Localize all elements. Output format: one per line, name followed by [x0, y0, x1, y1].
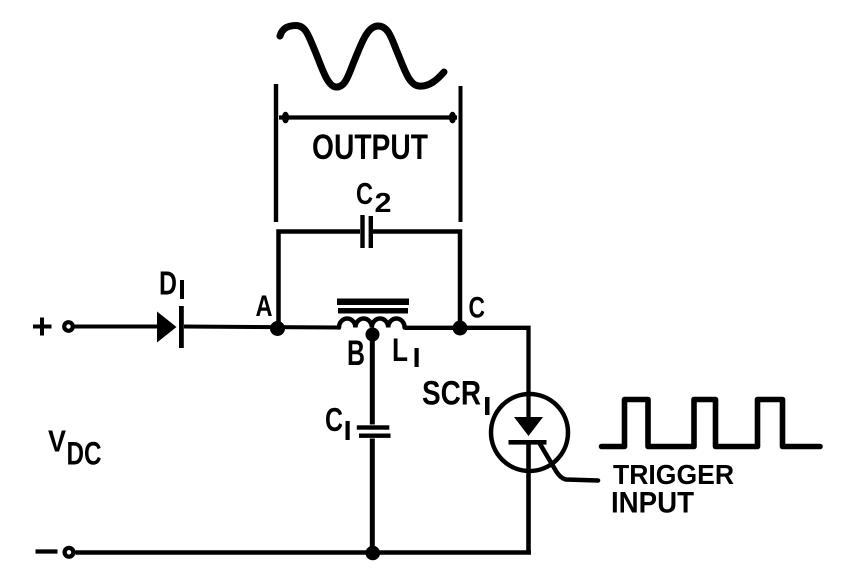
svg-text:C: C	[356, 176, 373, 211]
dimension line left	[274, 84, 278, 222]
bottom rail wire	[76, 550, 532, 555]
svg-text:OUTPUT: OUTPUT	[312, 128, 428, 167]
svg-text:V: V	[48, 424, 66, 459]
wire node C to corner	[405, 328, 529, 396]
wire node B to C1	[370, 334, 375, 425]
svg-text:2: 2	[375, 187, 392, 218]
wire diode to node A	[184, 327, 340, 328]
svg-text:D: D	[159, 265, 177, 302]
- symbol	[36, 549, 58, 553]
node B	[366, 328, 380, 342]
SCR1 cathode bar	[509, 440, 547, 445]
SCR1 cathode wire to bottom	[526, 444, 531, 553]
svg-text:C: C	[469, 292, 486, 325]
inductor L1 core bars	[337, 299, 409, 314]
wire + terminal to diode	[74, 325, 157, 329]
label OUTPUT	[312, 128, 428, 167]
+ input terminal	[64, 322, 73, 331]
gate lead	[540, 444, 598, 481]
label A	[256, 290, 273, 323]
label B	[347, 334, 365, 373]
- terminal	[65, 548, 74, 557]
label SCR1	[422, 375, 490, 416]
label C1	[325, 401, 350, 440]
inductor L1 coil	[339, 319, 405, 328]
node A	[270, 321, 285, 336]
label L1	[392, 332, 419, 368]
capacitor C2	[363, 215, 371, 248]
node bottom junction	[366, 546, 381, 561]
svg-text:C: C	[325, 401, 343, 438]
svg-text:L: L	[392, 332, 408, 368]
trigger waveform	[602, 400, 821, 447]
wire C2 top loop	[279, 232, 461, 330]
svg-text:B: B	[347, 334, 365, 373]
diode D1	[157, 306, 184, 348]
dimension line right	[459, 86, 463, 222]
svg-text:SCR: SCR	[422, 375, 481, 413]
SCR1 triangle	[514, 417, 543, 436]
label TRIGGER INPUT	[611, 459, 734, 520]
svg-text:DC: DC	[67, 436, 102, 472]
svg-text:INPUT: INPUT	[611, 487, 694, 520]
label C	[469, 292, 486, 325]
label C2	[356, 176, 392, 218]
dimension arrow line	[279, 112, 457, 124]
SCR1 circle	[491, 394, 568, 471]
capacitor C1	[357, 425, 391, 438]
node C	[453, 321, 468, 336]
wire C1 to bottom rail	[370, 439, 375, 554]
label VDC	[48, 424, 102, 472]
output waveform sine	[280, 26, 444, 88]
label D1	[159, 265, 184, 302]
svg-text:A: A	[256, 290, 273, 323]
+ symbol	[33, 318, 52, 336]
svg-text:TRIGGER: TRIGGER	[613, 459, 734, 490]
SCR1 anode wire	[526, 394, 530, 418]
